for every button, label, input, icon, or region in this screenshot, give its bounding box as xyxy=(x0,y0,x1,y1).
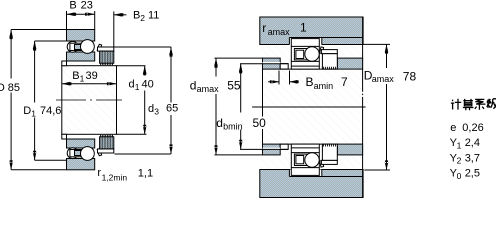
svg-text:D: D xyxy=(0,82,5,94)
svg-text:2,5: 2,5 xyxy=(465,168,480,180)
svg-text:1,2min: 1,2min xyxy=(102,173,128,183)
svg-text:3: 3 xyxy=(154,107,159,117)
svg-text:2: 2 xyxy=(457,156,462,166)
svg-text:D: D xyxy=(23,105,31,117)
svg-text:B: B xyxy=(306,75,314,89)
svg-text:7: 7 xyxy=(341,75,348,89)
svg-text:2,4: 2,4 xyxy=(465,137,480,149)
svg-text:amax: amax xyxy=(197,84,220,94)
svg-text:0: 0 xyxy=(457,171,462,181)
svg-text:e: e xyxy=(450,122,456,134)
svg-text:B: B xyxy=(69,0,76,12)
svg-text:bmin: bmin xyxy=(223,122,243,132)
svg-text:1: 1 xyxy=(300,21,307,35)
svg-text:amax: amax xyxy=(268,27,291,37)
svg-text:50: 50 xyxy=(253,116,267,130)
svg-text:0,26: 0,26 xyxy=(462,122,483,134)
svg-text:1: 1 xyxy=(135,82,140,92)
svg-text:1: 1 xyxy=(457,141,462,151)
svg-text:55: 55 xyxy=(227,78,241,92)
svg-text:2: 2 xyxy=(140,13,145,23)
svg-text:d: d xyxy=(216,116,223,130)
svg-text:B: B xyxy=(72,70,79,82)
svg-text:B: B xyxy=(133,10,140,22)
svg-text:1: 1 xyxy=(31,109,36,119)
svg-text:1: 1 xyxy=(80,74,85,84)
svg-text:d: d xyxy=(190,78,197,92)
svg-text:65: 65 xyxy=(166,103,178,115)
svg-text:3,7: 3,7 xyxy=(465,152,480,164)
svg-text:1,1: 1,1 xyxy=(138,168,153,180)
svg-text:11: 11 xyxy=(148,10,159,22)
svg-text:85: 85 xyxy=(8,82,20,94)
svg-text:23: 23 xyxy=(81,0,93,12)
svg-text:39: 39 xyxy=(86,70,98,82)
svg-text:amax: amax xyxy=(372,74,395,84)
svg-text:74,6: 74,6 xyxy=(40,105,61,117)
svg-text:r: r xyxy=(262,21,266,35)
svg-text:amin: amin xyxy=(314,81,334,91)
svg-text:40: 40 xyxy=(142,79,154,91)
svg-text:78: 78 xyxy=(403,69,417,83)
